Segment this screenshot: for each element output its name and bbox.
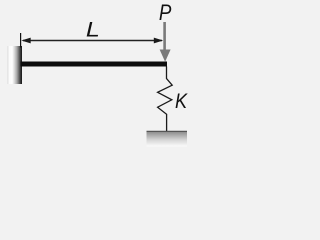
ground block top edge — [147, 130, 188, 132]
extension tick — [20, 33, 22, 48]
svg-text:K: K — [175, 89, 188, 113]
svg-text:P: P — [159, 0, 172, 25]
load arrow P shaft — [163, 22, 166, 50]
ground block — [147, 132, 188, 147]
load arrow P head — [160, 50, 171, 62]
dimension arrowhead right — [154, 38, 163, 44]
spring K — [158, 67, 173, 132]
dimension line L — [23, 40, 162, 42]
svg-text:L: L — [86, 18, 100, 41]
dimension arrowhead left — [21, 38, 30, 44]
beam — [21, 62, 168, 67]
wall support — [8, 46, 23, 84]
